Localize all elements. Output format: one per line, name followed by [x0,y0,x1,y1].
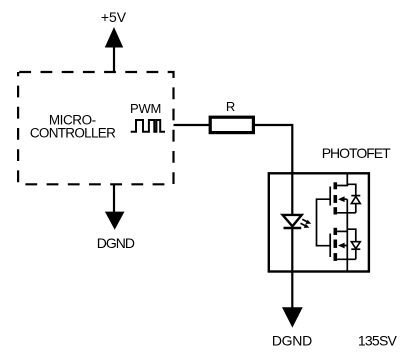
wire PWM output to resistor [174,124,211,126]
svg-text:135SV: 135SV [358,333,398,349]
mosfet Q2 gate bar [329,234,331,258]
svg-text:DGND: DGND [97,235,135,251]
body diode of Q1 cathode bar [351,195,360,197]
ground arrow DGND microcontroller [105,212,125,230]
power arrow +5V [105,27,123,48]
svg-text:CONTROLLER: CONTROLLER [30,125,116,140]
svg-text:+5V: +5V [101,9,127,25]
resistor R [210,117,253,132]
LED light emission arrow 1 [302,219,311,224]
wire LED cathode to DGND [291,227,293,308]
body diode of Q1 anode lead [355,204,357,213]
body diode of Q2 anode lead [355,249,357,259]
PWM waveform symbol [131,120,165,132]
wire microcontroller to DGND [113,184,115,213]
photofet package box [269,173,369,271]
mosfet Q1 gate bar [329,187,331,206]
LED D1 emitter triangle [283,215,302,226]
body diode of Q1 triangle [351,196,360,203]
mosfet Q1 drain lead [337,173,347,186]
svg-text:PHOTOFET: PHOTOFET [322,145,391,161]
svg-text:DGND: DGND [272,332,312,348]
ground arrow DGND photofet [282,307,303,327]
mosfet Q2 source lead [337,230,347,232]
body diode of Q2 cathode bar [351,248,360,250]
LED D1 cathode bar [284,227,302,229]
wire resistor to photofet node [254,125,292,215]
body diode of Q2 lead [347,229,356,241]
mosfet Q2 channel bars [334,228,338,261]
mosfet Q2 drain lead [337,258,356,260]
mosfet Q1 channel bars [334,182,338,214]
wire source node vertical [346,199,348,271]
body diode of Q2 triangle [351,242,360,249]
svg-text:PWM: PWM [130,101,161,116]
mosfet Q1 source lead [337,212,356,214]
gate tie wire [317,199,330,246]
mosfet Q1 body arrow [338,196,347,202]
mosfet Q2 body arrow [338,243,347,249]
LED light emission arrow 2 [301,223,310,228]
svg-text:R: R [226,99,235,114]
wire +5V to microcontroller [113,47,115,72]
body diode of Q1 lead [347,184,356,195]
microcontroller dashed box [18,72,173,184]
